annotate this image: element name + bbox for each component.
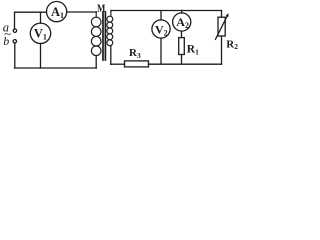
wire: left edge vertical from top rail to terminal a bbox=[14, 12, 16, 29]
wire: A2 to R1 bbox=[181, 31, 183, 37]
wire: V1 bottom stub to bottom rail bbox=[40, 44, 42, 69]
resistor R1 bbox=[179, 38, 185, 55]
wire: secondary bottom rail left of R3 bbox=[111, 63, 125, 65]
voltmeter V1 bbox=[30, 23, 50, 43]
ammeter A1 bbox=[47, 2, 67, 22]
resistor R3 bbox=[125, 61, 149, 67]
wire: secondary top rail bbox=[111, 10, 222, 12]
transformer primary coil bbox=[91, 12, 101, 68]
terminal a bbox=[13, 29, 16, 32]
wire: primary bottom rail bbox=[15, 67, 97, 69]
ammeter A2 bbox=[173, 13, 191, 31]
terminal b bbox=[13, 40, 16, 43]
wire: secondary bottom rail right of R3 bbox=[149, 63, 222, 65]
wire: primary top rail left segment bbox=[15, 11, 47, 13]
wire: V2 top stub bbox=[160, 11, 162, 21]
svg-text:M: M bbox=[97, 1, 105, 15]
svg-text:b: b bbox=[3, 34, 9, 48]
wire: R1 to bottom rail bbox=[181, 55, 183, 65]
wire: right edge bottom from R2 to bottom rail bbox=[221, 36, 223, 64]
wire: V1 top stub bbox=[40, 12, 42, 23]
wire: left edge vertical from terminal b to bottom rail bbox=[14, 43, 16, 68]
wire: V2 bottom stub to bottom rail bbox=[160, 38, 162, 64]
wire: right edge top (rail corner into R2) bbox=[221, 11, 223, 18]
transformer core bbox=[103, 12, 105, 60]
transformer secondary coil bbox=[107, 11, 113, 65]
voltmeter V2 bbox=[152, 20, 170, 38]
rheostat R2 box bbox=[218, 17, 225, 36]
rheostat R2 arrow bbox=[215, 13, 229, 40]
wire: A2 top stub bbox=[181, 11, 183, 14]
wire: primary top rail right segment bbox=[67, 11, 97, 13]
